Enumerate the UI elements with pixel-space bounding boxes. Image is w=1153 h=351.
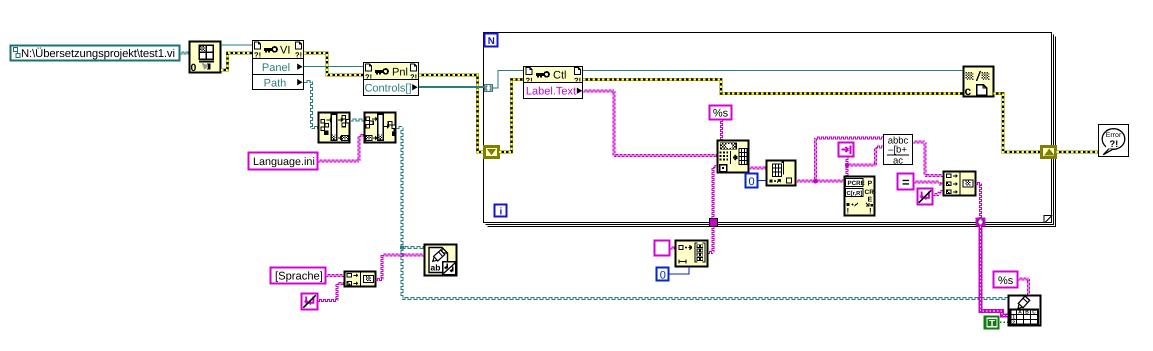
wire: control refnum tunnel to Ctl node and Close Reference	[493, 71, 964, 89]
constant: 0 row index (loop)	[746, 174, 758, 188]
constant: End of Line (loop)	[918, 189, 933, 205]
wire: concatenated line to indexing tunnel	[976, 183, 982, 219]
node: Close Reference	[964, 67, 994, 99]
svg-text:T: T	[989, 318, 995, 329]
wire: dimension size to Initialize Array	[670, 267, 690, 275]
svg-text:CR: CR	[865, 189, 875, 196]
wire: VI refnum to property node	[221, 44, 252, 46]
svg-text:B: B	[1025, 310, 1029, 316]
constant: Language.ini	[249, 153, 318, 170]
svg-text:P: P	[868, 181, 873, 188]
svg-text:0: 0	[660, 269, 666, 281]
wire: array type riser from Initialize Array through tunnel	[708, 166, 718, 254]
svg-text:N:\Übersetzungsprojekt\test1.v: N:\Übersetzungsprojekt\test1.vi	[21, 47, 175, 60]
node: Write To Spreadsheet File VI	[1009, 296, 1041, 327]
svg-text:c: c	[965, 84, 972, 98]
svg-text:2: 2	[1012, 320, 1015, 326]
constant: True	[985, 317, 999, 330]
shift register right (error)	[1042, 147, 1056, 158]
svg-text:PCRE: PCRE	[848, 180, 865, 187]
wire: empty string to Initialize Array	[670, 247, 675, 249]
svg-text:[Sprache]: [Sprache]	[275, 270, 323, 282]
node: Index Array	[767, 161, 796, 186]
constant: VI path N:\Übersetzungsprojekt\test1.vi	[11, 46, 180, 61]
For loop count terminal N	[485, 34, 498, 47]
wire: error out of loop to error handler	[1057, 150, 1099, 153]
tunnel: array type input (loop bottom edge, solid)	[710, 219, 718, 227]
svg-text:A: A	[1018, 310, 1022, 316]
wire: index 0 to Index Array	[758, 180, 767, 182]
wire: error Ctl to Close Reference	[583, 80, 963, 94]
node: property node VI (Panel, Path)	[253, 41, 304, 90]
svg-text:–[b+: –[b+	[888, 145, 907, 156]
node: Write Characters To File VI	[425, 245, 457, 276]
node: Build Path	[365, 113, 397, 143]
wire: section header string to Write Characters To File	[376, 254, 425, 281]
wire: tab to Search/Replace and Match Regexp	[845, 146, 883, 176]
wire: error Close Reference to right shift register	[994, 94, 1042, 153]
svg-text:Panel: Panel	[262, 62, 290, 74]
wire: append? True to Write To Spreadsheet File	[1000, 321, 1008, 323]
node: Initialize Array	[676, 241, 708, 267]
wire: error VI node to Pnl node	[304, 53, 363, 75]
For loop corner fold	[1044, 215, 1052, 223]
svg-text:C[r,R]: C[r,R]	[847, 190, 863, 197]
svg-text:ab: ab	[431, 263, 441, 273]
node: Open VI Reference	[190, 42, 221, 74]
svg-text:?!: ?!	[410, 73, 417, 82]
wire: string array to Index Array	[749, 167, 766, 169]
structure: For loop frame	[484, 33, 1056, 227]
svg-text:Controls[]: Controls[]	[364, 82, 411, 94]
wire: error Open VI Ref to VI property node	[221, 53, 252, 70]
svg-text:C: C	[1032, 310, 1036, 316]
wire: replaced string to Concatenate	[913, 141, 944, 177]
node: Concatenate Strings (2 inputs)	[345, 272, 376, 287]
svg-text:Ctl: Ctl	[553, 70, 566, 82]
svg-text:!: !	[847, 207, 850, 216]
svg-text:?!: ?!	[254, 51, 261, 60]
tunnel: Controls[] auto-indexing (loop left edge)	[485, 85, 493, 92]
svg-text:Pnl: Pnl	[392, 67, 408, 79]
svg-text:?!: ?!	[295, 51, 302, 60]
wire: path constant to Open VI Reference	[180, 52, 189, 54]
svg-text:%s: %s	[713, 107, 729, 119]
wire: error shift register to Ctl property node	[499, 80, 524, 153]
constant: End of Line (bottom left)	[302, 294, 318, 310]
wire: ini file path to writer VIs (with branch junction)	[396, 127, 1008, 300]
node: Strip Path	[319, 113, 350, 143]
svg-text:=: =	[902, 175, 910, 190]
svg-text:?!: ?!	[526, 76, 533, 85]
constant: empty string	[655, 241, 670, 256]
node: Simple Error Handler VI	[1099, 125, 1129, 157]
node: Search and Replace String	[884, 135, 913, 167]
wire: stripped path to Build Path	[350, 119, 364, 121]
wire: EOL to Concatenate (bottom)	[318, 283, 345, 302]
svg-text:!: !	[869, 207, 872, 216]
wire: error Pnl node to left shift register	[419, 75, 484, 152]
shift register left (error)	[485, 147, 499, 158]
node: property node Ctl (Label.Text)	[524, 67, 583, 99]
svg-text:?!: ?!	[574, 76, 581, 85]
wire: = to Concatenate	[914, 181, 944, 185]
wire: string array from loop to Write To Spreadsheet File	[981, 227, 1009, 316]
For loop iteration terminal i	[495, 205, 507, 218]
svg-text:?!: ?!	[365, 73, 372, 82]
svg-text:VI: VI	[280, 45, 290, 57]
wire: Language.ini name to Build Path	[318, 135, 364, 163]
wire: %s to Write To Spreadsheet File	[1018, 278, 1030, 295]
constant: Tab	[839, 143, 854, 157]
svg-text:ac: ac	[893, 156, 903, 167]
svg-text:Language.ini: Language.ini	[253, 156, 315, 168]
node: Spreadsheet String To Array	[718, 141, 749, 173]
wire: Path property to Strip Path	[304, 81, 318, 129]
constant: = replacement string	[898, 174, 914, 190]
constant: %s format (bottom right)	[994, 272, 1018, 288]
svg-text:Path: Path	[264, 77, 287, 89]
svg-text:N: N	[488, 36, 495, 47]
constant: [Sprache]	[271, 268, 326, 284]
wire: Panel refnum to Pnl property node	[304, 66, 363, 68]
tunnel: output indexing tunnel (loop bottom edge)	[977, 219, 985, 226]
svg-text:%s: %s	[998, 275, 1014, 287]
constant: %s format string (loop)	[710, 106, 732, 120]
svg-text:i: i	[500, 207, 503, 218]
svg-text:E: E	[868, 197, 873, 204]
constant: 0 dimension size	[657, 268, 669, 282]
node: property node Pnl (Controls[])	[364, 63, 419, 96]
node: Match Regular Expression	[845, 177, 875, 216]
svg-text:?!: ?!	[1109, 139, 1118, 150]
svg-text:0: 0	[191, 62, 197, 74]
svg-text:0: 0	[748, 176, 754, 188]
node: Concatenate Strings (3 inputs)	[944, 172, 976, 196]
wire: %s to Spreadsheet String To Array	[721, 120, 723, 141]
wire: Controls[] refnum array into loop tunnel	[419, 86, 484, 88]
wire: EOL to Concatenate	[933, 191, 944, 196]
svg-text:Label.Text: Label.Text	[526, 86, 576, 98]
wire: Label.Text string	[583, 90, 717, 157]
wire: [Sprache] to Concatenate	[326, 275, 344, 277]
wire: row string from Index Array (junction)	[796, 137, 883, 183]
